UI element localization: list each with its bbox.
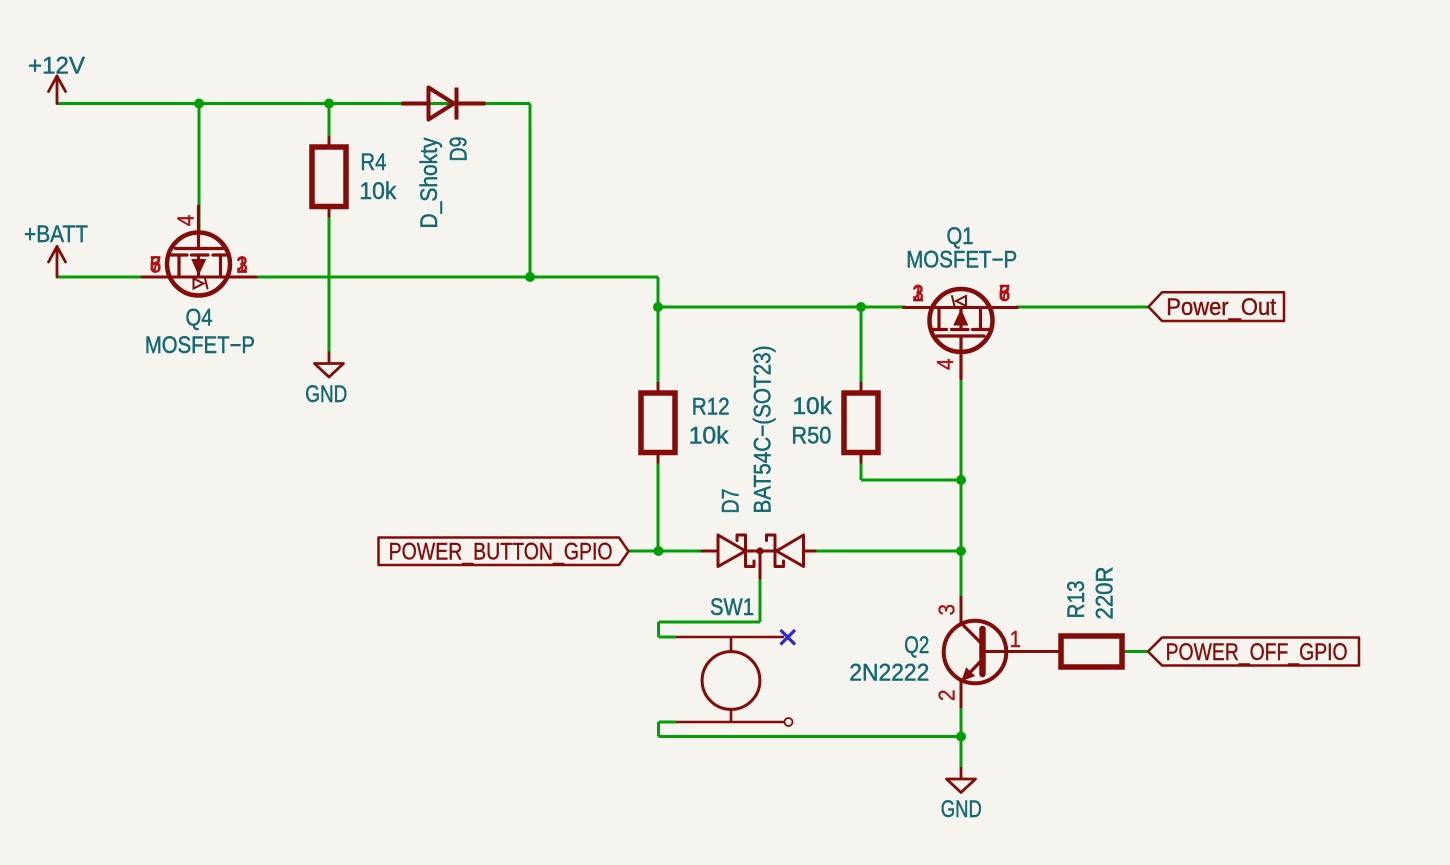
svg-text:10k: 10k bbox=[359, 178, 397, 205]
svg-text:8: 8 bbox=[999, 280, 1011, 306]
svg-text:D_Shokty: D_Shokty bbox=[416, 138, 443, 229]
svg-text:POWER_BUTTON_GPIO: POWER_BUTTON_GPIO bbox=[389, 539, 613, 566]
svg-text:3: 3 bbox=[236, 252, 248, 278]
svg-text:2N2222: 2N2222 bbox=[849, 660, 929, 687]
svg-text:MOSFET−P: MOSFET−P bbox=[145, 332, 255, 359]
svg-text:3: 3 bbox=[912, 280, 924, 306]
svg-text:R4: R4 bbox=[360, 149, 386, 176]
svg-text:POWER_OFF_GPIO: POWER_OFF_GPIO bbox=[1166, 639, 1348, 666]
svg-text:10k: 10k bbox=[792, 393, 833, 420]
svg-text:R13: R13 bbox=[1063, 581, 1090, 619]
svg-text:2: 2 bbox=[934, 690, 960, 702]
svg-text:3: 3 bbox=[934, 604, 960, 616]
svg-text:GND: GND bbox=[305, 381, 347, 408]
svg-text:Q4: Q4 bbox=[186, 305, 213, 332]
svg-text:BAT54C−(SOT23): BAT54C−(SOT23) bbox=[750, 346, 777, 514]
svg-text:+BATT: +BATT bbox=[24, 221, 88, 248]
svg-text:Q2: Q2 bbox=[904, 632, 929, 659]
svg-text:R12: R12 bbox=[692, 394, 730, 421]
svg-text:4: 4 bbox=[932, 358, 958, 370]
svg-text:8: 8 bbox=[150, 252, 162, 278]
svg-text:1: 1 bbox=[1010, 626, 1022, 652]
svg-text:220R: 220R bbox=[1092, 567, 1119, 620]
svg-text:D7: D7 bbox=[718, 489, 745, 514]
svg-text:SW1: SW1 bbox=[710, 594, 754, 621]
svg-text:+12V: +12V bbox=[28, 53, 85, 80]
svg-text:GND: GND bbox=[941, 796, 982, 823]
svg-text:D9: D9 bbox=[446, 137, 473, 162]
svg-text:MOSFET−P: MOSFET−P bbox=[906, 246, 1017, 273]
svg-text:4: 4 bbox=[173, 215, 199, 227]
svg-text:R50: R50 bbox=[791, 423, 831, 450]
svg-text:Power_Out: Power_Out bbox=[1166, 294, 1276, 321]
svg-text:10k: 10k bbox=[689, 423, 730, 450]
